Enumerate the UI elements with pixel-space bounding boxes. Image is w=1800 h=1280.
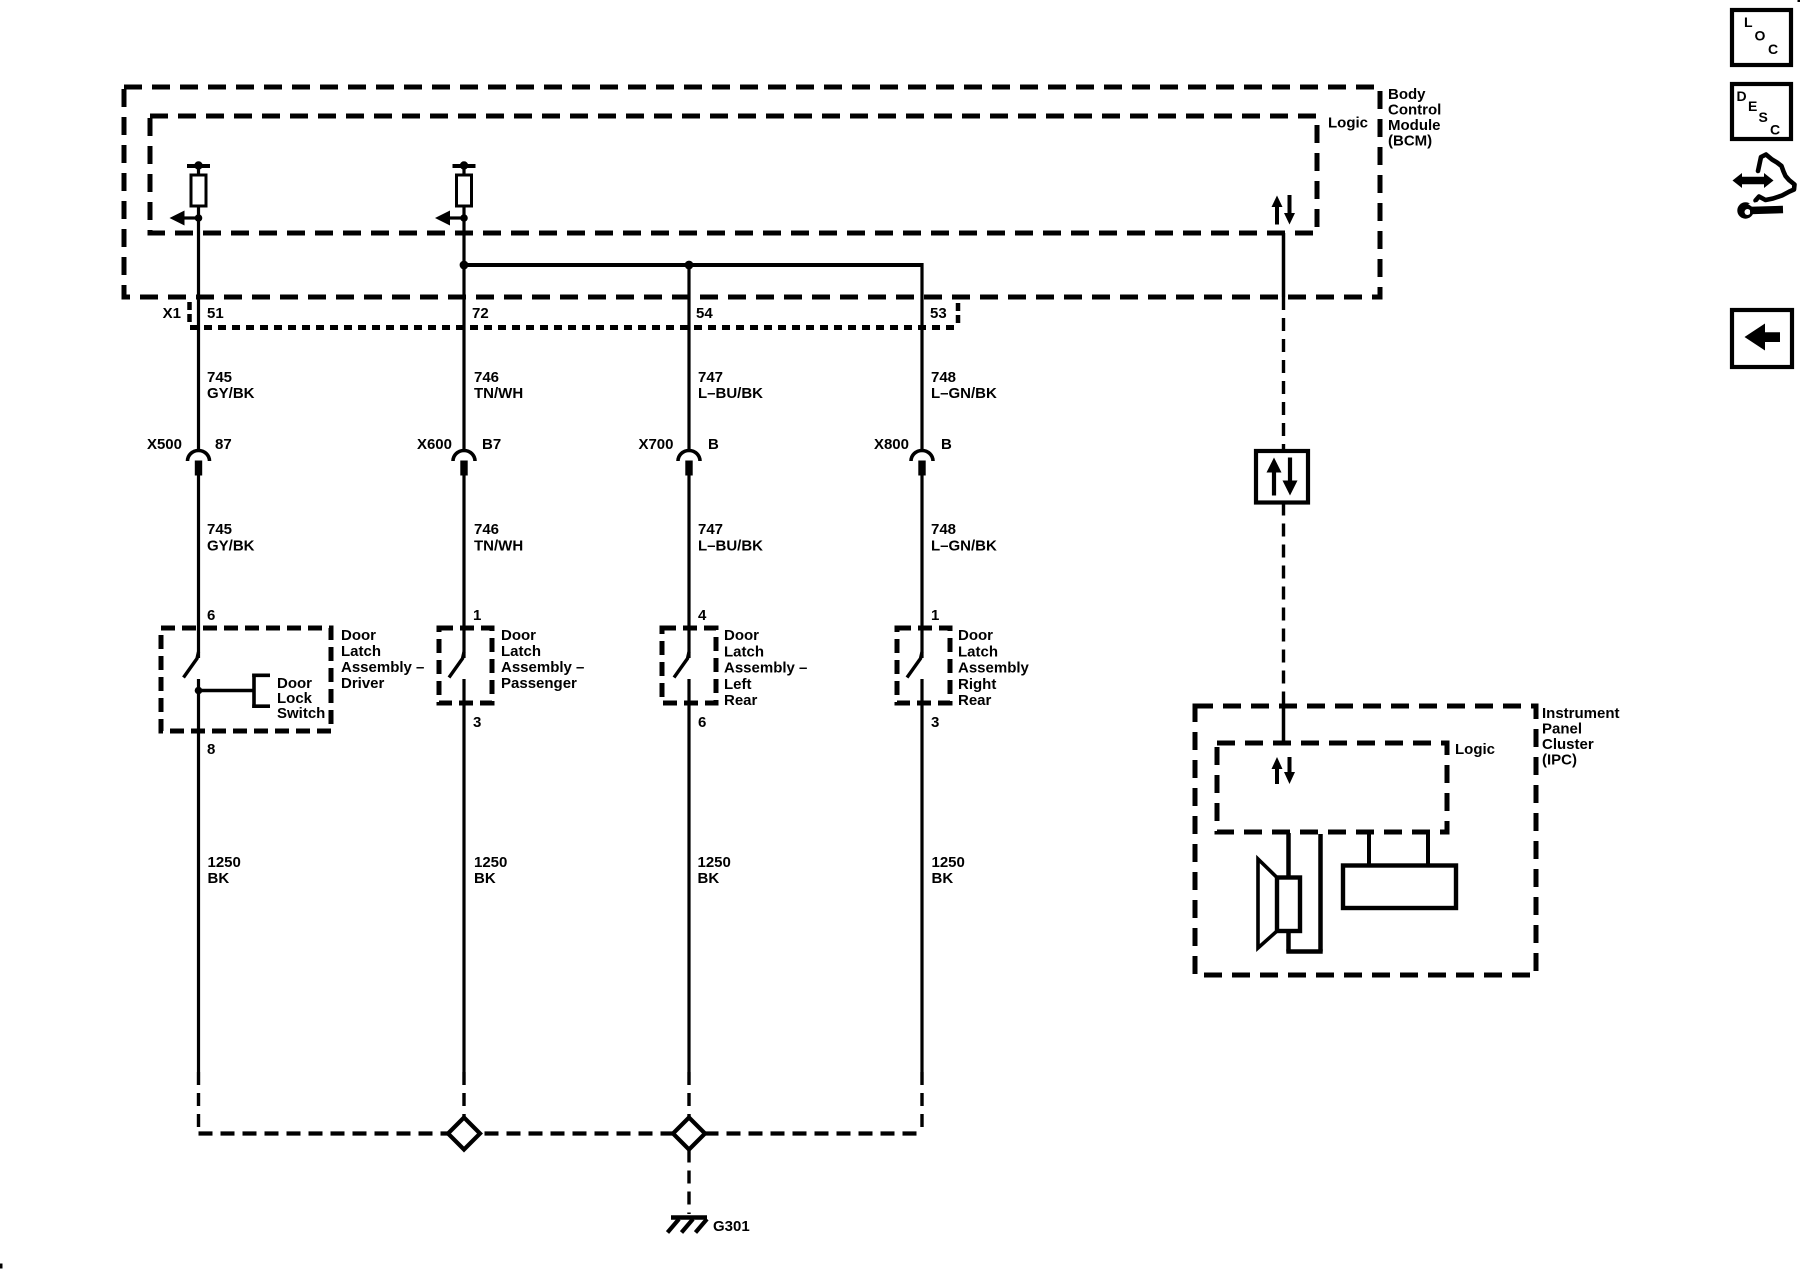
svg-text:1250: 1250 [474,854,507,871]
svg-text:747: 747 [698,521,723,538]
svg-text:B7: B7 [482,436,501,453]
wire col3 latch to splice (solid) [687,703,690,1072]
component box Door Latch Assembly - Driver [161,628,331,731]
svg-text:L–GN/BK: L–GN/BK [931,385,997,402]
page corner mark top right [1798,0,1800,2]
svg-text:TN/WH: TN/WH [474,385,523,402]
wire col3 X700 to latch [687,476,690,659]
page corner mark bottom left [0,1264,3,1269]
svg-text:746: 746 [474,521,499,538]
inline connector X800 [911,451,933,476]
wire 1250 BK label col3 [698,854,731,887]
wire 745 GY/BK label (lower) [207,521,255,555]
svg-text:GY/BK: GY/BK [207,385,255,402]
inline connector X600 [453,451,475,476]
wire col4 dashed drop to ground bus [920,1072,923,1134]
svg-text:(BCM): (BCM) [1388,133,1432,150]
module box IPC [1195,706,1536,975]
svg-text:Logic: Logic [1455,741,1495,758]
wire splice to ground (dashed) [687,1150,690,1215]
svg-text:3: 3 [473,714,481,731]
wire col1 latch to splice (solid) [197,691,200,1073]
bus wire inside BCM [464,263,922,267]
connector X1 separator left [187,302,192,324]
svg-text:Switch: Switch [277,705,325,722]
svg-text:Latch: Latch [341,643,381,660]
logic arrows up/down (IPC) [1272,757,1296,784]
svg-text:C: C [1768,41,1778,57]
svg-text:745: 745 [207,521,232,538]
wire col2 latch to splice (solid) [462,703,465,1072]
wire 1250 BK label col2 [474,854,507,887]
switch (passenger latch) [449,652,464,703]
svg-text:TN/WH: TN/WH [474,538,523,555]
svg-text:Passenger: Passenger [501,675,577,692]
svg-text:1250: 1250 [932,854,965,871]
label Body Control Module (BCM) [1388,86,1441,150]
svg-text:BK: BK [474,870,496,887]
wire 1250 BK label col4 [932,854,965,887]
wire col4 from bus [920,263,923,452]
svg-text:Body: Body [1388,86,1426,103]
wire BCM to arrow box (dashed) [1282,297,1285,451]
serial data arrows up/down [1267,458,1298,496]
component box Door Latch Assembly - Passenger [439,628,492,703]
inline connector X700 [678,451,700,476]
svg-text:Control: Control [1388,102,1441,119]
wire col1 BCM internal [197,218,200,452]
svg-text:Panel: Panel [1542,721,1582,738]
svg-text:(IPC): (IPC) [1542,752,1577,769]
BCM lock driver output 1 [170,161,211,225]
wire 747 L-BU/BK label (lower) [698,521,763,555]
svg-text:Right: Right [958,676,996,693]
svg-text:Door: Door [501,627,536,644]
svg-text:1250: 1250 [698,854,731,871]
svg-text:746: 746 [474,369,499,386]
wire 746 TN/WH label (upper) [474,369,523,402]
wire col3 dashed drop to splice [687,1072,690,1118]
switch (right rear latch) [907,652,922,703]
svg-text:747: 747 [698,369,723,386]
wire col1 dashed drop to ground bus [197,1072,200,1134]
svg-text:BK: BK [208,870,230,887]
icon LOC box [1732,10,1791,65]
component box Door Latch Assembly - Left Rear [662,628,716,703]
svg-text:Module: Module [1388,117,1441,134]
svg-text:Latch: Latch [724,643,764,660]
svg-text:Assembly –: Assembly – [501,659,584,676]
wire to door lock switch [199,689,255,692]
connector X1 separator right [956,303,961,324]
svg-text:1250: 1250 [208,854,241,871]
icon wiring repair (arrows and wrench) [1733,155,1795,219]
ground bus dashed wire [199,1131,923,1135]
svg-text:L–BU/BK: L–BU/BK [698,538,763,555]
svg-text:B: B [708,436,719,453]
junction node col2/bus [460,261,469,270]
svg-text:Assembly: Assembly [958,660,1030,677]
svg-text:53: 53 [930,305,947,322]
wire 1250 BK label col1 [208,854,241,887]
svg-text:X800: X800 [874,436,909,453]
svg-text:Cluster: Cluster [1542,736,1594,753]
svg-text:X700: X700 [638,436,673,453]
svg-text:Rear: Rear [724,692,758,709]
svg-text:Left: Left [724,676,752,693]
ground G301 [668,1218,708,1233]
svg-text:Door: Door [958,627,993,644]
wire col3 from bus [687,265,690,452]
serial data symbol box [1256,451,1308,503]
module box BCM [124,87,1380,297]
svg-text:Assembly –: Assembly – [341,659,424,676]
svg-text:72: 72 [472,305,489,322]
svg-text:6: 6 [698,714,706,731]
inline connector X500 [188,451,210,476]
svg-text:54: 54 [696,305,713,322]
wire col2 BCM internal [462,218,465,452]
label Door Latch Assembly Right Rear [958,627,1030,709]
connector X1 bottom dotted line [190,325,958,330]
svg-text:1: 1 [931,607,939,624]
svg-text:D: D [1737,88,1747,104]
BCM lock driver output 2 [435,161,476,225]
svg-text:L: L [1744,14,1753,30]
wire col4 latch to splice (solid) [920,703,923,1072]
switch (left rear latch) [674,652,689,703]
svg-text:8: 8 [207,741,215,758]
svg-text:745: 745 [207,369,232,386]
logic box (IPC) [1217,743,1447,832]
label Door Latch Assembly - Left Rear [724,627,807,709]
svg-text:87: 87 [215,436,232,453]
component box Door Latch Assembly - Right Rear [897,628,950,703]
switch (driver latch) [184,652,199,692]
svg-text:Rear: Rear [958,692,992,709]
splice S1 (col2) [448,1118,480,1150]
icon back arrow box [1732,310,1792,367]
svg-text:4: 4 [698,607,707,624]
wire col2 dashed drop to splice [462,1072,465,1118]
svg-text:X500: X500 [147,436,182,453]
wire 748 L-GN/BK label (upper) [931,369,997,402]
label Door Latch Assembly - Driver [341,627,424,692]
svg-text:3: 3 [931,714,939,731]
svg-text:G301: G301 [713,1218,750,1235]
wire 745 GY/BK label (upper) [207,369,255,402]
wire col1 X500 to latch [197,476,200,659]
wire 748 L-GN/BK label (lower) [931,521,997,555]
junction node door lock switch [195,687,203,695]
junction node col3/bus [685,261,694,270]
svg-text:Door: Door [724,627,759,644]
speaker symbol (IPC chime) [1258,859,1300,948]
logic box (BCM) [150,116,1317,233]
svg-text:GY/BK: GY/BK [207,538,255,555]
wire col2 X600 to latch [462,476,465,659]
svg-text:BK: BK [932,870,954,887]
svg-text:L–GN/BK: L–GN/BK [931,538,997,555]
gauge component (IPC) [1343,832,1456,908]
svg-text:Door: Door [341,627,376,644]
svg-text:51: 51 [207,305,224,322]
svg-text:748: 748 [931,521,956,538]
svg-text:Instrument: Instrument [1542,705,1620,722]
svg-text:Assembly –: Assembly – [724,660,807,677]
logic arrows up/down (BCM) [1272,195,1296,225]
svg-text:Latch: Latch [501,643,541,660]
svg-text:748: 748 [931,369,956,386]
wire right column solid inside BCM [1282,233,1286,297]
svg-text:Latch: Latch [958,643,998,660]
icon DESC box [1732,84,1791,139]
wire 747 L-BU/BK label (upper) [698,369,763,402]
sounder body (IPC) [1286,833,1322,952]
wire col4 X800 to latch [920,476,923,659]
svg-text:O: O [1755,28,1766,44]
door lock switch contact bracket [252,674,270,709]
label Door Lock Switch [277,675,325,722]
svg-text:6: 6 [207,607,215,624]
label Door Latch Assembly - Passenger [501,627,584,692]
wire into IPC (solid) [1282,706,1286,743]
svg-text:X600: X600 [417,436,452,453]
svg-text:C: C [1770,122,1780,138]
svg-text:S: S [1759,109,1768,125]
label Instrument Panel Cluster (IPC) [1542,705,1620,769]
svg-text:L–BU/BK: L–BU/BK [698,385,763,402]
svg-text:Driver: Driver [341,675,385,692]
svg-text:BK: BK [698,870,720,887]
splice S2 (col3) [673,1118,705,1150]
svg-text:E: E [1748,98,1757,114]
svg-text:1: 1 [473,607,481,624]
svg-text:X1: X1 [163,305,181,322]
svg-text:B: B [941,436,952,453]
wire 746 TN/WH label (lower) [474,521,523,555]
wire arrow box to IPC (dashed) [1282,503,1285,707]
svg-text:Logic: Logic [1328,115,1368,132]
